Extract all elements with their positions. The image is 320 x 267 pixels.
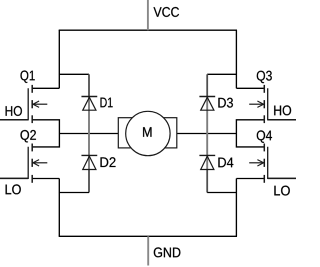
label Q3 — [257, 71, 272, 83]
wire Q1 drain — [32, 87, 59, 89]
label GND — [154, 247, 181, 257]
label HO right — [274, 105, 291, 115]
wire left rail lower — [58, 179, 60, 237]
transistor Q4 — [249, 144, 296, 183]
label D2 — [101, 157, 116, 167]
wire right rail lower — [235, 179, 237, 237]
wire D3-D4 column through node B — [206, 96, 208, 169]
transistor Q2 — [0, 144, 47, 183]
wire GND bottom rail — [59, 235, 237, 237]
wire node A to motor left — [59, 133, 118, 135]
wire D1 cathode drop — [88, 74, 90, 96]
wire D4 anode to rail — [207, 192, 236, 194]
wire D2 anode to rail — [59, 192, 89, 194]
wire HO left input — [0, 119, 28, 121]
wire D3 cathode drop — [206, 74, 208, 96]
wire LO left input — [0, 178, 28, 180]
wire D3 cathode to rail — [207, 73, 236, 75]
diode D2 — [81, 155, 97, 169]
label Q1 — [21, 71, 35, 83]
wire LO right input — [268, 178, 296, 180]
wire HO right input — [268, 119, 296, 121]
wire D1 cathode to rail — [59, 73, 89, 75]
wire VCC stub — [147, 0, 149, 30]
motor M body — [126, 111, 170, 155]
label M motor — [143, 127, 151, 137]
wire D1-D2 column through node A — [88, 96, 90, 169]
motor M terminal blocks — [118, 118, 177, 148]
label VCC — [154, 7, 180, 17]
diode D4 — [199, 155, 215, 169]
transistor Q3 — [249, 85, 296, 123]
label Q4 — [257, 130, 272, 142]
label D4 — [218, 158, 233, 168]
wire D4 anode drop — [206, 170, 208, 193]
label HO left — [6, 106, 22, 116]
wire D2 anode drop — [88, 170, 90, 193]
wire Q3 drain — [236, 87, 264, 89]
wire node B to motor right — [177, 133, 237, 135]
label Q2 — [21, 130, 36, 142]
wire right rail upper — [235, 30, 237, 88]
diode D1 — [81, 97, 97, 111]
wire Q3 source to node B — [236, 120, 264, 147]
wire VCC top rail — [59, 29, 237, 31]
wire Q1 source to node A — [32, 120, 59, 147]
wire Q4 source — [236, 178, 264, 180]
wire GND stub — [147, 236, 149, 265]
label LO right — [274, 186, 289, 196]
wire left rail upper — [58, 30, 60, 88]
transistor Q1 — [0, 85, 47, 123]
label D3 — [218, 98, 233, 108]
diode D3 — [199, 97, 215, 111]
label D1 — [101, 98, 113, 108]
wire Q2 source — [32, 178, 59, 180]
label LO left — [6, 184, 21, 194]
